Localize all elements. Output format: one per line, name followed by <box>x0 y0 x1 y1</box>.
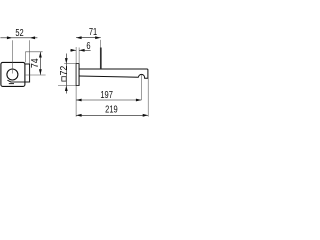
dim 74 <box>25 52 46 75</box>
spout side profile <box>79 69 148 78</box>
dim 71 <box>76 26 101 69</box>
dim square72 <box>58 54 76 94</box>
svg-text:6: 6 <box>86 40 90 51</box>
leader vertical above square corner <box>24 52 26 63</box>
dim 6 <box>70 40 90 52</box>
square escutcheon front view <box>1 62 25 86</box>
spout body bar behind escutcheon <box>20 64 30 82</box>
dim 219 <box>76 78 148 116</box>
diagonal tick at circle lower-left <box>7 80 11 82</box>
circle spout outlet front <box>7 69 18 80</box>
dim 197 <box>76 75 141 102</box>
ext line for 6 dim at face <box>78 48 80 64</box>
escutcheon side profile <box>76 64 79 86</box>
svg-text:52: 52 <box>15 27 23 38</box>
svg-text:74: 74 <box>29 58 41 68</box>
under-circle horizontal edge <box>11 81 25 83</box>
aerator dash below circle <box>9 83 14 85</box>
svg-text:72: 72 <box>58 66 70 76</box>
svg-text:197: 197 <box>100 89 113 100</box>
dim 52 <box>0 27 37 74</box>
svg-text:71: 71 <box>89 26 97 37</box>
svg-text:219: 219 <box>105 104 118 115</box>
wall extension line <box>75 47 77 117</box>
